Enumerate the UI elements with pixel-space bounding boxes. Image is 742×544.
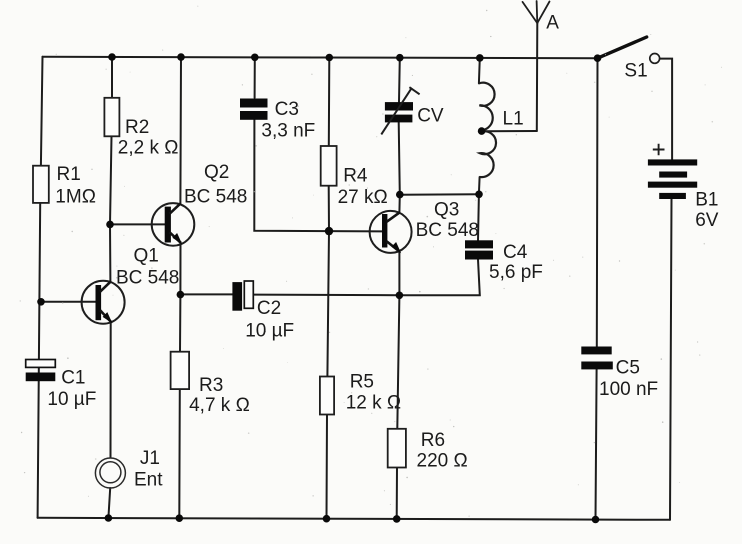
wire R2 column	[110, 57, 112, 224]
svg-text:C5: C5	[616, 357, 640, 378]
svg-text:1MΩ: 1MΩ	[55, 186, 96, 207]
antenna A	[523, 1, 550, 23]
svg-text:L1: L1	[503, 109, 524, 130]
svg-text:R3: R3	[199, 375, 223, 396]
svg-text:R2: R2	[125, 117, 149, 138]
wire R4-R5 column	[327, 58, 330, 519]
capacitor C3	[240, 99, 268, 120]
jack J1	[95, 458, 125, 488]
wire Q1 emitter to J1	[110, 322, 112, 458]
svg-text:R4: R4	[343, 165, 368, 186]
wire top rail	[43, 57, 598, 58]
wire bottom rail	[38, 518, 670, 520]
wire battery bottom / right edge	[670, 199, 672, 520]
wire Q1 collector	[109, 224, 111, 281]
svg-text:BC 548: BC 548	[184, 186, 247, 207]
resistor R2	[104, 98, 119, 137]
svg-text:R5: R5	[350, 372, 374, 393]
wire C4 top lead	[477, 194, 480, 240]
svg-text:Q3: Q3	[434, 200, 459, 221]
svg-text:R6: R6	[421, 430, 445, 451]
capacitor C5	[581, 347, 613, 370]
capacitor CV	[381, 87, 419, 134]
wire C2 right lead to Q3 emitter node	[253, 294, 399, 297]
svg-text:10 µF: 10 µF	[47, 389, 96, 410]
svg-text:BC 548: BC 548	[116, 268, 179, 289]
inductor L1	[479, 83, 496, 177]
wire C4 bottom lead	[399, 259, 479, 295]
wire L1 top lead	[478, 58, 481, 84]
svg-text:A: A	[546, 13, 559, 34]
switch S1	[598, 37, 660, 63]
svg-text:3,3 nF: 3,3 nF	[261, 121, 315, 142]
wire Q3 emitter / R6 column	[397, 252, 400, 519]
wire J1 to bottom rail	[108, 488, 110, 518]
wire antenna stem	[536, 23, 539, 131]
resistor R5	[320, 377, 334, 415]
transistor Q2	[152, 203, 195, 246]
wire collector node to L1 bottom node	[400, 193, 479, 196]
wire Q2 collector column	[179, 57, 182, 203]
svg-text:Ent: Ent	[134, 470, 163, 491]
capacitor C2	[232, 281, 253, 311]
svg-text:10 µF: 10 µF	[245, 321, 294, 342]
wire L1 tap to antenna stem	[482, 130, 537, 132]
transistor Q1	[82, 281, 125, 324]
wire C2 left lead	[180, 293, 232, 295]
capacitor C1	[26, 360, 56, 382]
svg-text:5,6 pF: 5,6 pF	[489, 262, 543, 283]
svg-text:220 Ω: 220 Ω	[417, 451, 468, 472]
wire Q2 emitter / R3 column	[179, 243, 180, 519]
transistor Q3	[370, 211, 412, 253]
svg-text:CV: CV	[417, 105, 444, 126]
resistor R1	[33, 166, 49, 203]
wire left column	[38, 57, 43, 518]
wire Q3 base	[329, 230, 382, 232]
wire S1 output to battery top	[660, 59, 673, 160]
svg-text:C4: C4	[503, 242, 528, 263]
battery B1	[648, 144, 697, 199]
capacitor C4	[465, 240, 493, 259]
wire Q3 collector	[398, 195, 400, 213]
svg-text:BC 548: BC 548	[416, 220, 479, 241]
svg-text:Q1: Q1	[134, 246, 159, 267]
svg-text:B1: B1	[695, 190, 718, 211]
wire Q1 base	[41, 301, 96, 303]
svg-text:100 nF: 100 nF	[599, 379, 658, 400]
wire C3 column	[254, 57, 329, 231]
wire CV column	[399, 58, 400, 195]
svg-text:12 k Ω: 12 k Ω	[346, 393, 401, 414]
resistor R6	[388, 429, 406, 468]
svg-text:C3: C3	[275, 99, 299, 120]
svg-text:S1: S1	[624, 60, 647, 81]
svg-text:R1: R1	[57, 164, 81, 185]
svg-text:4,7 k Ω: 4,7 k Ω	[189, 395, 250, 416]
wire L1 bottom lead	[478, 177, 481, 194]
svg-text:2,2 k Ω: 2,2 k Ω	[118, 137, 179, 158]
wire Q2 base	[110, 223, 165, 225]
wire C5 column	[596, 58, 598, 519]
svg-text:C1: C1	[61, 367, 85, 388]
svg-text:6V: 6V	[695, 210, 719, 231]
resistor R4	[321, 146, 337, 186]
svg-text:J1: J1	[140, 448, 160, 469]
svg-text:C2: C2	[257, 298, 281, 319]
svg-text:27 kΩ: 27 kΩ	[338, 187, 388, 208]
svg-text:Q2: Q2	[204, 162, 229, 183]
resistor R3	[171, 352, 190, 389]
